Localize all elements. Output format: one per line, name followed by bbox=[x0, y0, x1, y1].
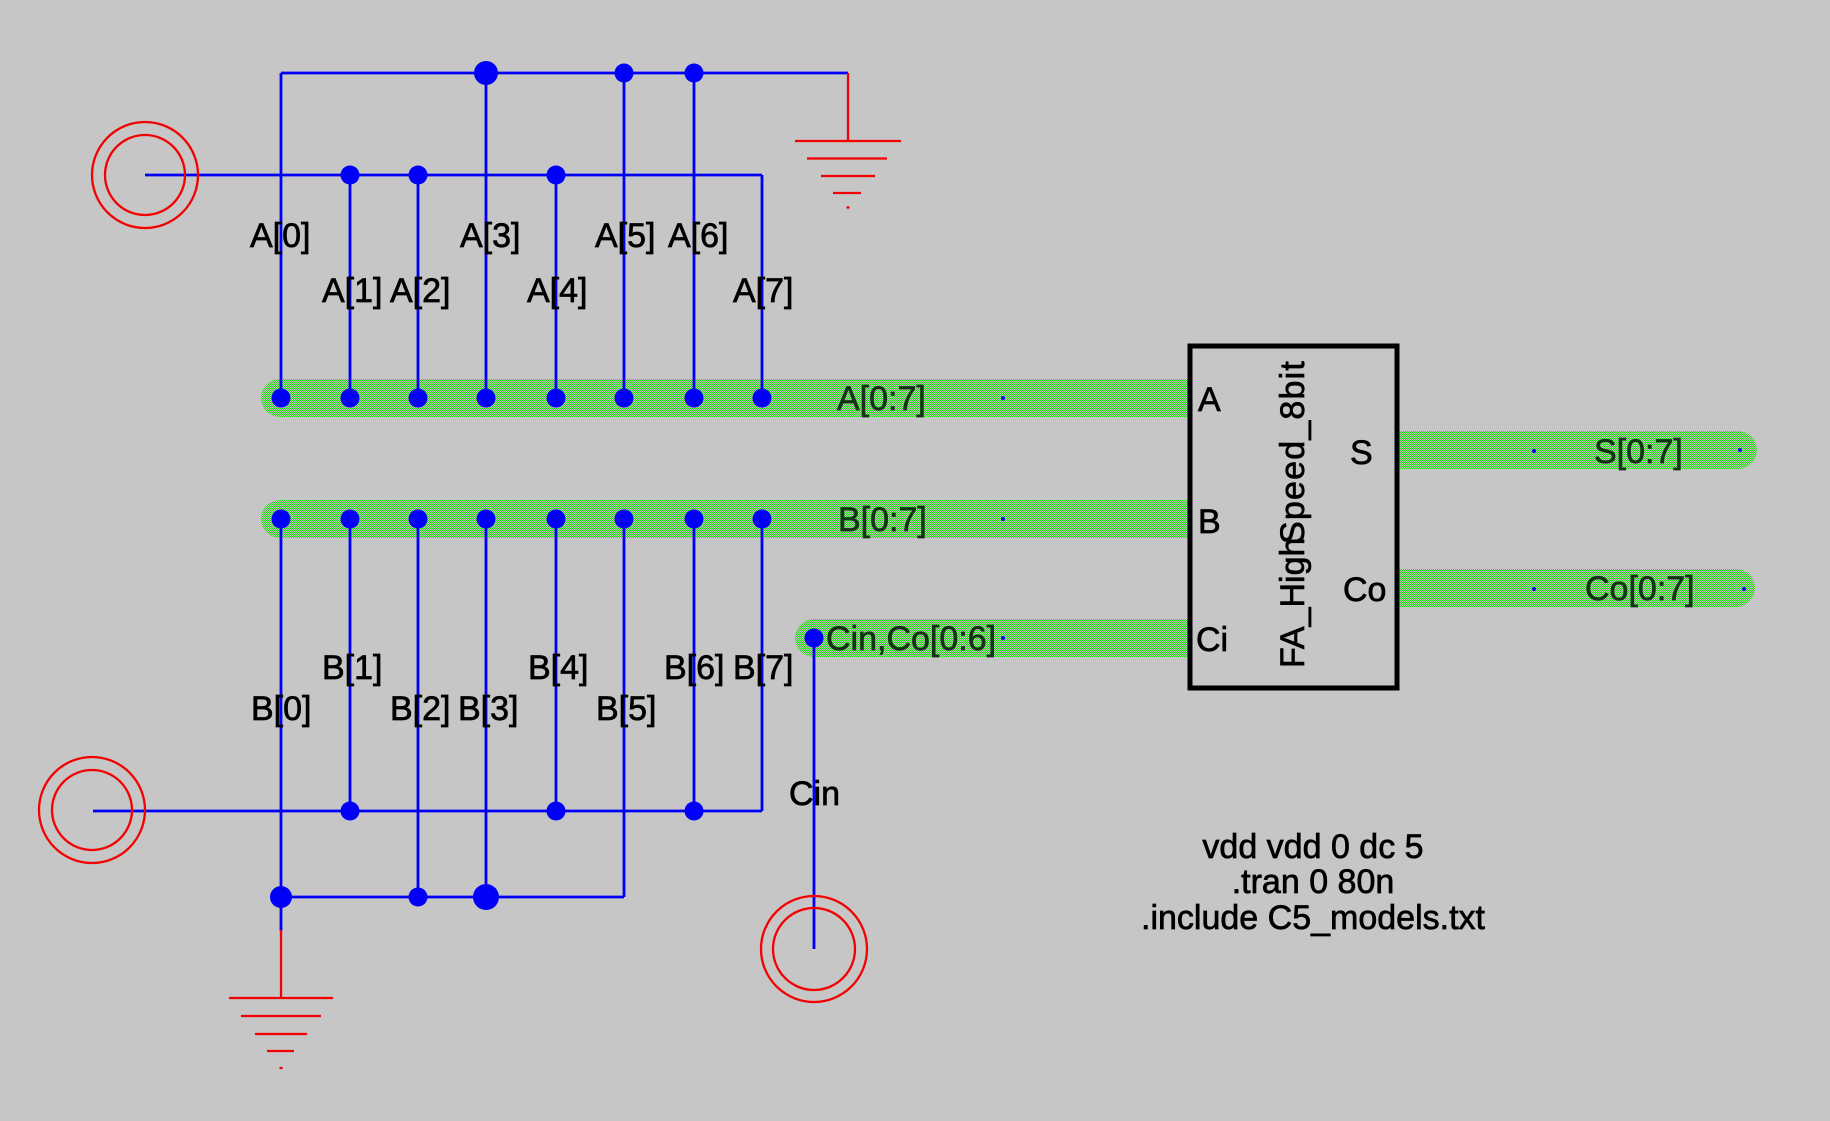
svg-text:B[0:7]: B[0:7] bbox=[838, 501, 927, 539]
node A[4] bbox=[547, 389, 566, 408]
wire A[3] vertical bbox=[485, 73, 488, 398]
ground bottom left bbox=[229, 930, 333, 1068]
svg-text:Speed_8bit: Speed_8bit bbox=[1274, 360, 1312, 544]
svg-text:A[5]: A[5] bbox=[595, 217, 655, 255]
bus A[0:7] bbox=[261, 379, 1193, 417]
wire B[5] vertical bbox=[623, 519, 626, 897]
port P2 (B source) bbox=[39, 757, 145, 863]
wire B[4] vertical bbox=[555, 519, 558, 811]
node Cin bbox=[805, 629, 824, 648]
node pin mark B bus bbox=[1001, 517, 1005, 521]
node pin mark Ci bus bbox=[1001, 636, 1005, 640]
svg-text:B[1]: B[1] bbox=[322, 649, 382, 687]
svg-text:A[2]: A[2] bbox=[390, 272, 450, 310]
svg-text:B[6]: B[6] bbox=[664, 649, 724, 687]
wire A[0] vertical bbox=[280, 73, 283, 398]
port P3 (Cin source) bbox=[761, 896, 867, 1002]
svg-text:FA_High: FA_High bbox=[1274, 538, 1312, 668]
node A[5] bbox=[615, 389, 634, 408]
svg-text:A: A bbox=[1198, 381, 1221, 419]
port P1 (A source) bbox=[92, 122, 198, 228]
svg-text:Co[0:7]: Co[0:7] bbox=[1585, 570, 1695, 608]
wire port2 horizontal bbox=[93, 810, 762, 813]
node junction bbox=[341, 166, 360, 185]
node junction bbox=[685, 802, 704, 821]
svg-text:B[4]: B[4] bbox=[528, 649, 588, 687]
wire B[1] vertical bbox=[349, 519, 352, 811]
wire ground stub bbox=[280, 897, 283, 931]
svg-text:B[3]: B[3] bbox=[458, 690, 518, 728]
wire bottom rail bbox=[281, 896, 624, 899]
svg-text:.include C5_models.txt: .include C5_models.txt bbox=[1141, 899, 1486, 937]
svg-text:A[0]: A[0] bbox=[250, 217, 310, 255]
node B[3] bbox=[477, 510, 496, 529]
wire B[7] vertical bbox=[761, 519, 764, 811]
node B[4] bbox=[547, 510, 566, 529]
component U1 FA_HighSpeed_8bit bbox=[1190, 346, 1397, 688]
node pin mark A bus bbox=[1001, 396, 1005, 400]
node pin mark S bus bbox=[1532, 449, 1536, 453]
node junction big bbox=[270, 886, 292, 908]
bus B[0:7] bbox=[261, 500, 1193, 538]
node junction bbox=[547, 802, 566, 821]
node junction bbox=[341, 802, 360, 821]
node junction bbox=[547, 166, 566, 185]
wire B[3] vertical bbox=[485, 519, 488, 897]
wire B[0] vertical bbox=[280, 519, 283, 897]
bus Co[0:7] bbox=[1394, 569, 1755, 607]
svg-text:A[0:7]: A[0:7] bbox=[837, 380, 926, 418]
node B[6] bbox=[685, 510, 704, 529]
wire A[1] vertical bbox=[349, 175, 352, 398]
svg-text:Cin,Co[0:6]: Cin,Co[0:6] bbox=[826, 620, 996, 658]
wire A[6] vertical bbox=[693, 73, 696, 398]
wire B[2] vertical bbox=[417, 519, 420, 897]
node A[3] bbox=[477, 389, 496, 408]
node junction bbox=[685, 64, 704, 83]
ground top right bbox=[795, 73, 901, 208]
node junction bbox=[409, 166, 428, 185]
svg-text:S[0:7]: S[0:7] bbox=[1594, 433, 1683, 471]
node vdd big junction bbox=[474, 61, 498, 85]
node junction bbox=[615, 64, 634, 83]
svg-text:A[3]: A[3] bbox=[460, 217, 520, 255]
wire A[7] vertical bbox=[761, 175, 764, 398]
wire A[2] vertical bbox=[417, 175, 420, 398]
svg-text:S: S bbox=[1350, 434, 1373, 472]
node pin mark S end bbox=[1738, 448, 1742, 452]
wire Cin vertical bbox=[813, 638, 816, 949]
svg-text:A[6]: A[6] bbox=[668, 217, 728, 255]
svg-text:vdd vdd 0 dc 5: vdd vdd 0 dc 5 bbox=[1202, 828, 1423, 866]
node B[1] bbox=[341, 510, 360, 529]
wire port1 horizontal bbox=[145, 174, 762, 177]
node junction bbox=[409, 888, 428, 907]
svg-text:Ci: Ci bbox=[1196, 621, 1228, 659]
node junction big bbox=[473, 884, 499, 910]
svg-text:A[1]: A[1] bbox=[322, 272, 382, 310]
node pin mark Co end bbox=[1742, 587, 1746, 591]
wire B[6] vertical bbox=[693, 519, 696, 811]
node A[6] bbox=[685, 389, 704, 408]
svg-text:Cin: Cin bbox=[789, 775, 840, 813]
svg-text:A[7]: A[7] bbox=[733, 272, 793, 310]
wire vdd top rail bbox=[281, 72, 848, 75]
node B[2] bbox=[409, 510, 428, 529]
node B[5] bbox=[615, 510, 634, 529]
svg-text:B[5]: B[5] bbox=[596, 690, 656, 728]
svg-text:B[0]: B[0] bbox=[251, 690, 311, 728]
node A[2] bbox=[409, 389, 428, 408]
node A[0] bbox=[272, 389, 291, 408]
svg-text:B[2]: B[2] bbox=[390, 690, 450, 728]
svg-text:B[7]: B[7] bbox=[733, 649, 793, 687]
node A[1] bbox=[341, 389, 360, 408]
svg-text:B: B bbox=[1198, 503, 1221, 541]
bus S[0:7] bbox=[1394, 431, 1757, 469]
node A[7] bbox=[753, 389, 772, 408]
node B[7] bbox=[753, 510, 772, 529]
svg-text:.tran 0 80n: .tran 0 80n bbox=[1232, 863, 1395, 901]
node pin mark Co bus bbox=[1532, 587, 1536, 591]
bus Cin,Co[0:6] bbox=[795, 619, 1193, 657]
svg-text:Co: Co bbox=[1343, 571, 1386, 609]
wire A[4] vertical bbox=[555, 175, 558, 398]
node B[0] bbox=[272, 510, 291, 529]
wire A[5] vertical bbox=[623, 73, 626, 398]
svg-text:A[4]: A[4] bbox=[527, 272, 587, 310]
